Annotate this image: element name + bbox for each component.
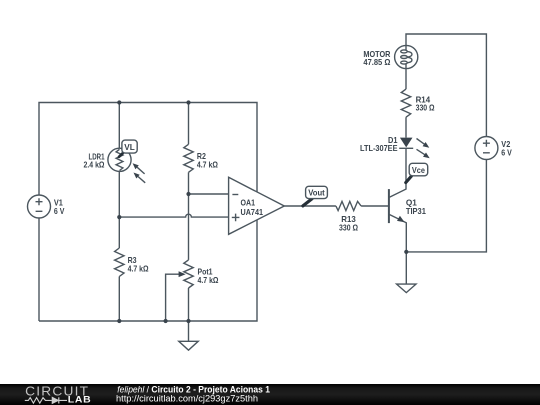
- svg-text:Vce: Vce: [412, 165, 425, 175]
- wire R2 to pot: [188, 172, 190, 260]
- node dot minus input: [186, 192, 190, 196]
- svg-text:OA1: OA1: [241, 197, 256, 207]
- resistor R13: [336, 201, 361, 210]
- wire LED to R14: [405, 117, 407, 137]
- LDR arrow 2: [138, 177, 145, 183]
- svg-text:47.85 Ω: 47.85 Ω: [363, 57, 390, 67]
- node dot rail pot: [186, 319, 190, 323]
- wire opamp output: [284, 205, 336, 207]
- LED arrow 1: [417, 139, 425, 145]
- op-amp OA1: [229, 177, 285, 234]
- transistor Q1: [388, 189, 390, 223]
- ground right: [397, 284, 416, 293]
- wire R2 branch top: [188, 103, 190, 145]
- voltmeter flag VL: [119, 152, 124, 157]
- wire V2 bottom to emitter junction: [406, 160, 486, 252]
- node dot rail wiper: [164, 319, 168, 323]
- wire top rail left: [39, 103, 257, 196]
- wire ground stub mid: [188, 321, 190, 341]
- LED arrow 2: [417, 149, 425, 154]
- svg-text:UA741: UA741: [241, 207, 264, 217]
- node dot plus input: [117, 215, 121, 219]
- node dot rail R3: [117, 319, 121, 323]
- motor MOTOR: [395, 45, 418, 68]
- svg-text:Vout: Vout: [308, 188, 325, 198]
- wire junction to ground right: [405, 252, 407, 284]
- node dot top LDR: [117, 100, 121, 104]
- svg-text:2.4 kΩ: 2.4 kΩ: [84, 160, 105, 170]
- logo doodle resistor diode: [25, 398, 67, 404]
- svg-text:TIP31: TIP31: [406, 206, 426, 216]
- wire R13 to base: [361, 205, 389, 207]
- wire R14 to motor: [405, 68, 407, 89]
- svg-text:330 Ω: 330 Ω: [339, 222, 358, 232]
- wire R3 bottom: [118, 277, 120, 322]
- node flag Vce: [406, 176, 412, 183]
- svg-text:http://circuitlab.com/cj293gz7: http://circuitlab.com/cj293gz7z5thh: [116, 394, 258, 404]
- wire collector to LED: [405, 148, 407, 182]
- wire motor top rail: [406, 34, 486, 137]
- svg-text:330 Ω: 330 Ω: [416, 103, 435, 113]
- footer bar: [0, 384, 540, 405]
- svg-text:4.7 kΩ: 4.7 kΩ: [128, 263, 149, 273]
- wire minus input: [189, 193, 229, 195]
- resistor R2: [184, 144, 193, 172]
- voltage source V2: [475, 137, 498, 160]
- svg-text:VL: VL: [124, 142, 135, 152]
- node dot emitter junction: [404, 250, 408, 254]
- voltage source V1: [28, 195, 51, 218]
- wire pot bottom: [188, 288, 190, 321]
- svg-text:LAB: LAB: [68, 394, 92, 404]
- LDR LDR1: [108, 148, 131, 171]
- wire V1 bottom to rail: [38, 218, 40, 321]
- potentiometer Pot1: [184, 260, 193, 288]
- ground mid: [179, 341, 198, 350]
- LDR arrow 1: [137, 167, 145, 174]
- svg-text:4.7 kΩ: 4.7 kΩ: [197, 159, 218, 169]
- svg-text:4.7 kΩ: 4.7 kΩ: [198, 275, 219, 285]
- svg-text:6 V: 6 V: [54, 206, 65, 216]
- wire LDR branch top: [118, 103, 120, 149]
- svg-text:LTL-307EE: LTL-307EE: [360, 143, 398, 153]
- svg-text:6 V: 6 V: [501, 147, 512, 157]
- wire LDR to node: [118, 171, 120, 248]
- LED D1: [399, 147, 413, 149]
- node dot top R2: [186, 100, 190, 104]
- resistor R14: [401, 89, 410, 117]
- wire bottom rail: [39, 220, 257, 321]
- wire plus input with hop: [119, 214, 228, 217]
- resistor R3: [115, 248, 124, 277]
- node flag Vout: [303, 199, 312, 206]
